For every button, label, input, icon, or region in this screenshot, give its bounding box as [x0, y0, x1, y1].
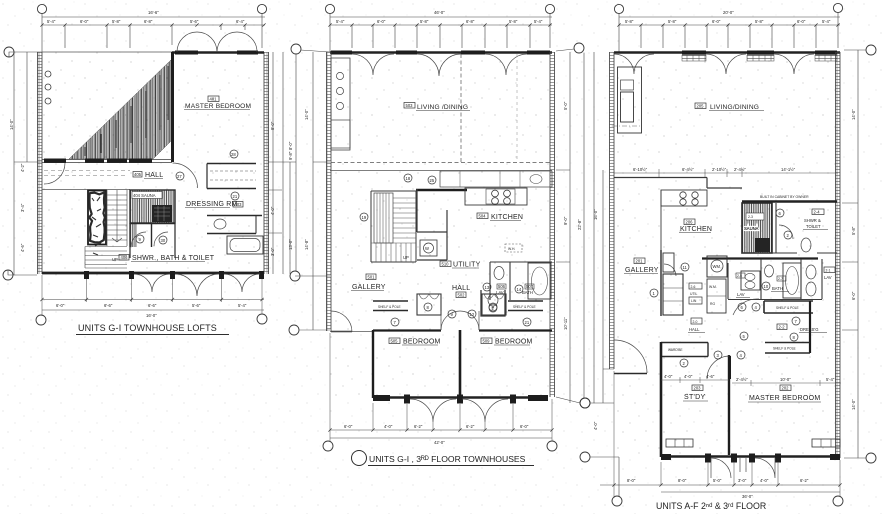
svg-text:5'-8": 5'-8" [420, 19, 429, 24]
svg-text:21: 21 [525, 320, 530, 325]
top overall dimension line [619, 13, 840, 52]
svg-text:11: 11 [683, 265, 688, 270]
svg-text:LIVING/DINING: LIVING/DINING [710, 104, 759, 111]
svg-text:LIN: LIN [691, 299, 697, 303]
bottom overall dim [661, 491, 840, 493]
svg-text:8'-0": 8'-0" [288, 141, 293, 150]
top segment dimension line [619, 25, 840, 48]
svg-text:SHELF & POLE: SHELF & POLE [773, 347, 796, 351]
svg-text:UTILITY: UTILITY [453, 262, 481, 269]
sauna room plan1 [130, 190, 175, 223]
circle 6 [776, 209, 784, 217]
svg-text:19: 19 [362, 215, 367, 220]
circle 9c [448, 310, 456, 318]
svg-text:403: 403 [235, 202, 243, 207]
svg-text:504: 504 [479, 214, 487, 219]
svg-text:2-7: 2-7 [778, 277, 783, 281]
svg-text:6'-0": 6'-0" [80, 19, 89, 24]
svg-text:6'-0": 6'-0" [377, 19, 386, 24]
svg-text:UP: UP [112, 257, 118, 262]
registration circle bottom-right [257, 314, 267, 324]
circle 25 [428, 176, 436, 184]
svg-text:42'-0": 42'-0" [434, 440, 445, 445]
shwr bath toilet label [119, 255, 129, 261]
registration circle top-left [37, 4, 46, 13]
svg-text:KITCHEN: KITCHEN [680, 226, 712, 233]
svg-text:6'-0": 6'-0" [797, 19, 806, 24]
svg-text:9'-0": 9'-0" [270, 121, 275, 130]
kitchen north wall [614, 178, 742, 189]
left dimension line [295, 50, 330, 330]
title bullet [352, 451, 367, 466]
svg-text:4'-0": 4'-0" [684, 374, 693, 379]
svg-text:30: 30 [161, 238, 166, 243]
svg-text:14'-0": 14'-0" [851, 109, 856, 120]
svg-text:SHWR &: SHWR & [804, 218, 821, 223]
bottom door arcs [410, 399, 508, 422]
circle 7b [792, 317, 800, 325]
study label [692, 385, 703, 391]
svg-text:16'-0": 16'-0" [593, 209, 598, 220]
registration circle left-bottom [580, 452, 590, 462]
circle 1 [650, 289, 658, 297]
svg-text:12: 12 [470, 312, 475, 317]
svg-text:UTIL: UTIL [690, 292, 697, 296]
svg-text:SHELF & POLE: SHELF & POLE [776, 306, 799, 310]
registration circle right-top [574, 43, 584, 53]
svg-text:501: 501 [368, 275, 376, 280]
registration circle top-right [257, 4, 266, 13]
central stairs [371, 191, 416, 262]
svg-text:14'-0": 14'-0" [304, 109, 309, 120]
svg-text:10'-11": 10'-11" [563, 317, 568, 330]
svg-text:28: 28 [231, 152, 236, 157]
svg-text:203: 203 [694, 386, 702, 391]
svg-text:2-6: 2-6 [691, 285, 696, 289]
left wall hatched [327, 52, 332, 331]
dressing east wall [809, 301, 811, 353]
svg-text:MASTER BEDROOM: MASTER BEDROOM [185, 103, 251, 110]
master bedroom label [780, 385, 791, 391]
svg-text:6'-2": 6'-2" [800, 478, 809, 483]
bottom dimension line [330, 429, 552, 431]
svg-text:5'-0": 5'-0" [563, 101, 568, 110]
master bedroom west wall [171, 52, 174, 162]
svg-text:6'-4": 6'-4" [236, 19, 245, 24]
svg-text:16'-6": 16'-6" [148, 10, 159, 15]
registration circle bottom-right [547, 441, 557, 451]
svg-text:509: 509 [483, 339, 491, 344]
interior dim above study [661, 377, 729, 383]
bottom door swing arcs [134, 274, 260, 296]
left dimension line [590, 52, 619, 496]
svg-text:SHELF & POLE: SHELF & POLE [378, 305, 401, 309]
svg-text:5'-6": 5'-6" [190, 19, 199, 24]
svg-text:6'-0": 6'-0" [712, 19, 721, 24]
registration circle top-left [614, 4, 623, 13]
svg-text:MASTER BEDROOM: MASTER BEDROOM [749, 395, 820, 402]
svg-text:2-2: 2-2 [779, 325, 786, 330]
svg-text:505: 505 [391, 339, 399, 344]
svg-text:506: 506 [498, 284, 506, 289]
right lav label [824, 267, 835, 273]
svg-text:HALL: HALL [145, 172, 163, 179]
dressing lower shelf&pole [765, 343, 810, 354]
bathtub [227, 236, 263, 254]
bottom wall [661, 455, 840, 458]
kitchenette counters top-left [331, 58, 350, 150]
circle 2b [784, 231, 792, 239]
svg-text:8'-0": 8'-0" [627, 478, 636, 483]
svg-text:16'-0": 16'-0" [146, 313, 157, 318]
bottom door arcs [711, 458, 775, 478]
svg-text:P: P [492, 305, 495, 310]
svg-text:SHELF & POLE: SHELF & POLE [513, 305, 536, 309]
bottom overall dim [330, 437, 552, 439]
stairs plan1 [85, 190, 127, 268]
window seat study [666, 439, 693, 447]
registration circle right-top [866, 45, 876, 55]
left wall hatched [610, 52, 615, 369]
svg-text:RG: RG [710, 302, 715, 306]
svg-text:4'-0": 4'-0" [760, 478, 769, 483]
svg-text:202: 202 [782, 386, 790, 391]
top wall [614, 51, 840, 54]
sauna stove [152, 205, 172, 222]
svg-text:5'-4": 5'-4" [336, 19, 345, 24]
shower room plan3 [742, 203, 837, 253]
window sills on loft wall [44, 159, 66, 163]
window sills + sash hatch top [682, 51, 706, 55]
svg-text:6'-2": 6'-2" [414, 424, 423, 429]
hall label plan3 [691, 318, 702, 324]
bath room walls [490, 262, 552, 300]
svg-text:2'-4½": 2'-4½" [736, 377, 748, 382]
bottom door jambs [661, 454, 840, 463]
svg-text:503: 503 [406, 103, 414, 108]
window seat master [680, 438, 682, 440]
util labels [689, 283, 702, 289]
svg-text:5'-8": 5'-8" [851, 226, 856, 235]
registration circle left-corner [289, 325, 299, 335]
washer [420, 240, 437, 256]
registration circle left-bottom [3, 270, 13, 280]
svg-text:HALL: HALL [689, 327, 700, 332]
left dimension line [8, 52, 42, 275]
interior dim line kitchen [614, 169, 838, 177]
left wall (hatched) [38, 52, 43, 274]
svg-text:25: 25 [430, 178, 435, 183]
hall south wall [42, 189, 130, 191]
circle 14 [515, 285, 523, 293]
svg-text:SHWR., BATH & TOILET: SHWR., BATH & TOILET [132, 255, 215, 262]
gallery-hall door arc [664, 264, 676, 276]
lav label [497, 284, 506, 289]
svg-text:404 SAUNA: 404 SAUNA [133, 193, 156, 198]
right dimension lines [556, 49, 584, 403]
svg-text:4'-0": 4'-0" [384, 424, 393, 429]
svg-text:UP: UP [403, 255, 409, 260]
svg-text:401: 401 [210, 97, 218, 102]
sauna plan3 [742, 203, 772, 253]
left closet shelf&pole [373, 301, 408, 311]
registration circle bottom-left [36, 315, 46, 325]
circle 21b [523, 318, 531, 326]
loft wall door arc [44, 163, 65, 184]
divider door arc [707, 356, 730, 379]
bedroom entry arcs [441, 311, 479, 330]
svg-text:14'-0": 14'-0" [9, 119, 14, 130]
svg-text:LAV: LAV [824, 275, 832, 280]
living dining label [695, 103, 706, 109]
svg-text:LAV: LAV [737, 292, 745, 297]
bath label [777, 276, 786, 281]
top overall dimension line [42, 14, 265, 52]
wc door arc + circle 30 [154, 232, 168, 246]
svg-text:3'-0": 3'-0" [738, 478, 747, 483]
svg-text:5'-8": 5'-8" [625, 19, 634, 24]
gallery label [634, 258, 645, 264]
svg-text:6'-2": 6'-2" [466, 424, 475, 429]
master bedroom dim row [732, 380, 841, 386]
svg-text:9'-8": 9'-8" [288, 151, 293, 160]
hall band north wall [702, 257, 818, 259]
toilet plan3 upper [801, 238, 811, 252]
svg-text:10'-0": 10'-0" [780, 377, 791, 382]
bottom dim extension lines [614, 371, 840, 498]
registration circle left-mid [580, 398, 590, 408]
shwr toilet label [812, 209, 824, 215]
study/master divider wall [728, 355, 730, 455]
svg-text:20'-0": 20'-0" [723, 10, 734, 15]
svg-text:W: W [425, 246, 429, 251]
svg-text:507: 507 [526, 284, 534, 289]
svg-text:GALLERY: GALLERY [625, 267, 659, 274]
svg-text:2-5: 2-5 [737, 274, 742, 278]
dimension tick slashes [40, 23, 265, 26]
svg-text:5'-4": 5'-4" [534, 19, 543, 24]
svg-text:W.M.: W.M. [709, 285, 717, 289]
bath label [525, 284, 534, 289]
registration circle top-right [545, 4, 554, 13]
svg-text:46'-0": 46'-0" [434, 10, 445, 15]
svg-text:TOILET: TOILET [806, 224, 821, 229]
svg-text:2-4: 2-4 [814, 210, 821, 215]
svg-text:WARD'BE: WARD'BE [668, 348, 682, 352]
svg-text:5'-8": 5'-8" [509, 19, 518, 24]
right dimension line [842, 50, 866, 458]
water heater dashed [505, 244, 522, 252]
master bedroom label box 401 [208, 96, 219, 102]
study wardrobe [661, 343, 708, 357]
bottom overall dim [42, 309, 264, 311]
svg-text:BEDROOM: BEDROOM [403, 339, 441, 346]
right lav basins [806, 265, 816, 279]
svg-text:5'-8": 5'-8" [755, 19, 764, 24]
bath toilet [765, 265, 774, 277]
svg-text:5'-4": 5'-4" [47, 19, 56, 24]
svg-text:18: 18 [406, 176, 411, 181]
hall door arc [173, 163, 198, 188]
circle 7 [391, 318, 399, 326]
svg-text:5'-6": 5'-6" [192, 303, 201, 308]
svg-text:UNITS G-I , 3ᴿᴰ FLOOR TOWN: UNITS G-I , 3ᴿᴰ FLOOR TOWNHOUSES [369, 454, 526, 464]
wardrobe shelf and pole upper [207, 164, 256, 189]
left cabinet column [663, 253, 674, 272]
svg-text:13: 13 [485, 285, 490, 290]
svg-text:6'-6": 6'-6" [148, 303, 157, 308]
svg-text:BATH: BATH [772, 286, 783, 291]
svg-text:UNITS G-I TOWNHOUSE LOFTS: UNITS G-I TOWNHOUSE LOFTS [78, 323, 217, 333]
top segment dimension line [330, 25, 552, 48]
circle 3 [714, 351, 722, 359]
living/kitchen divider wall [330, 170, 552, 172]
bedroom north wall [373, 329, 552, 331]
svg-text:5'-4": 5'-4" [238, 303, 247, 308]
kitchen label [477, 213, 488, 219]
svg-text:5'-4": 5'-4" [826, 377, 835, 382]
toilet plan1 [214, 219, 226, 229]
svg-text:6'-10½": 6'-10½" [633, 167, 648, 172]
wardrobe lower [207, 216, 262, 234]
small circles column left (symbols) [45, 71, 51, 77]
svg-text:6'-4½": 6'-4½" [682, 167, 694, 172]
circle 21 [231, 192, 239, 200]
svg-text:UNITS A-F 2ⁿᵈ & 3ʳᵈ FLOOR: UNITS A-F 2ⁿᵈ & 3ʳᵈ FLOOR [656, 501, 766, 511]
svg-text:14'-1½": 14'-1½" [781, 167, 796, 172]
svg-text:4'-0": 4'-0" [270, 206, 275, 215]
bedroom divider wall [459, 330, 462, 397]
bottom dimension line [600, 484, 840, 486]
water heater cabinet [707, 279, 726, 313]
right wall (hatched) [264, 52, 269, 274]
study west wall [660, 342, 663, 457]
svg-text:6'-0": 6'-0" [344, 424, 353, 429]
svg-text:5'-8": 5'-8" [668, 19, 677, 24]
door swing arcs above top wall [177, 32, 257, 52]
circle 13 [483, 283, 491, 291]
lav counter [741, 271, 760, 290]
toilet bath [494, 267, 504, 280]
circle 27 [176, 172, 184, 180]
svg-text:2-0: 2-0 [693, 320, 698, 324]
svg-text:DRESS'G: DRESS'G [800, 327, 818, 332]
svg-text:6'-0": 6'-0" [520, 424, 529, 429]
circle 2c [680, 359, 688, 367]
shower door arc + circle 9 [131, 232, 146, 247]
svg-text:BATH: BATH [522, 290, 533, 295]
svg-text:14: 14 [517, 287, 522, 292]
kitchen label [684, 219, 695, 225]
svg-text:6'-0": 6'-0" [56, 303, 65, 308]
dressing shelf&pole [764, 301, 813, 313]
left small closet [417, 294, 441, 315]
registration circle bottom-right [833, 496, 843, 506]
top edge line over open area [42, 51, 172, 53]
svg-text:LIVING /DINING: LIVING /DINING [417, 104, 468, 111]
svg-text:5'-4": 5'-4" [822, 19, 831, 24]
svg-text:5'-0": 5'-0" [713, 478, 722, 483]
svg-text:4'-2": 4'-2" [20, 163, 25, 172]
svg-text:510: 510 [442, 262, 450, 267]
circle 16 [360, 213, 368, 221]
shower room wall [130, 224, 175, 248]
svg-text:13'-0": 13'-0" [288, 239, 293, 250]
gallery door arc at left wall [331, 311, 352, 332]
door arc left wall bottom [614, 340, 647, 373]
bottom corner blocks [373, 395, 390, 401]
circle 8b [790, 333, 798, 341]
hall dashed ceiling lines [44, 171, 130, 176]
living dining label [404, 103, 415, 109]
svg-text:502: 502 [458, 293, 466, 298]
svg-text:21: 21 [233, 194, 238, 199]
circle 28 [230, 150, 238, 158]
svg-text:DRESSING RM: DRESSING RM [186, 201, 238, 208]
fireplace on left wall [618, 67, 642, 133]
circle 12c [468, 310, 476, 318]
window sills top [331, 51, 352, 55]
sauna stove [755, 238, 770, 252]
window sill top wall 2 [237, 51, 258, 55]
bedroom 509 label [481, 338, 492, 344]
svg-text:5'-8": 5'-8" [112, 19, 121, 24]
svg-text:HALL: HALL [452, 285, 470, 292]
top wall [330, 51, 552, 54]
shower wall hatch band [129, 223, 137, 247]
svg-text:36'-0": 36'-0" [742, 494, 753, 499]
svg-text:4'-0": 4'-0" [593, 421, 598, 430]
bedroom 505 label [389, 338, 400, 344]
interior door swing arcs top (into living room) [352, 54, 527, 76]
svg-text:3'-4": 3'-4" [20, 203, 25, 212]
registration circle bottom-left [323, 441, 333, 451]
loft floor wall [42, 160, 172, 163]
svg-text:8'-0": 8'-0" [678, 478, 687, 483]
bottom dim extension lines [42, 275, 262, 316]
utility room walls [417, 189, 447, 260]
bottom dimension line [42, 299, 264, 301]
gallery label [366, 274, 376, 280]
svg-text:6'-0": 6'-0" [851, 291, 856, 300]
svg-text:9'-0": 9'-0" [563, 216, 568, 225]
right wall hatched [836, 52, 841, 458]
svg-text:406: 406 [121, 255, 129, 260]
registration circle top-right [833, 3, 842, 12]
washer-dryer [707, 256, 727, 277]
svg-text:BUILT IN CABINET BY OWNER: BUILT IN CABINET BY OWNER [760, 195, 809, 199]
bottom door jambs [404, 395, 516, 404]
svg-text:W.H.: W.H. [508, 247, 515, 251]
right closet shelf&pole [508, 301, 543, 311]
svg-text:6'-8": 6'-8" [144, 19, 153, 24]
dressing label [777, 324, 787, 330]
registration circle right-bottom [580, 398, 590, 408]
right dimension lines [268, 52, 296, 274]
svg-text:2'-10½": 2'-10½" [712, 167, 727, 172]
svg-text:206: 206 [686, 220, 694, 225]
sloped-ceiling hatch band [69, 60, 173, 159]
utility label [440, 261, 451, 267]
svg-text:4'-6": 4'-6" [20, 243, 25, 252]
registration circle bottom-left [612, 496, 622, 506]
bottom wall [373, 396, 548, 399]
svg-text:10: 10 [764, 284, 769, 289]
svg-text:4'-0": 4'-0" [664, 374, 673, 379]
sauna north wall thick [742, 200, 837, 202]
circle 5 [740, 332, 748, 340]
svg-text:14'-8": 14'-8" [304, 239, 309, 250]
